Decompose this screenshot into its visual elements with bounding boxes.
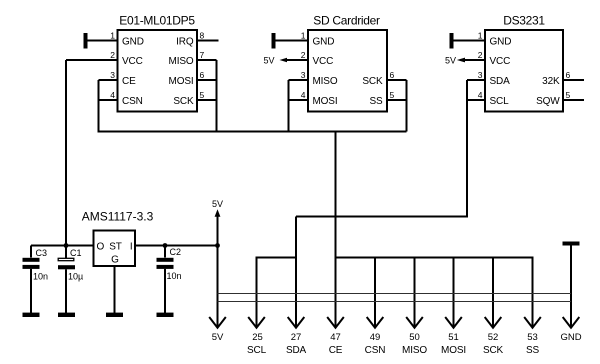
svg-text:SCK: SCK: [483, 345, 504, 356]
connector bus rail lower line: [218, 301, 572, 303]
arrow 27: [288, 317, 305, 328]
U1 pin 2 VCC wire: [66, 59, 118, 61]
svg-text:IRQ: IRQ: [176, 37, 194, 48]
svg-text:10n: 10n: [33, 272, 48, 282]
svg-text:VCC: VCC: [122, 56, 143, 67]
svg-text:7: 7: [200, 50, 205, 60]
svg-text:5V: 5V: [263, 56, 274, 66]
ground bar at U3 pin 1: [450, 33, 454, 49]
wire SDA drop: [295, 217, 297, 327]
wire 5V rail right: [135, 245, 218, 247]
svg-text:C2: C2: [170, 247, 182, 257]
IC U2 SD Cardrider body: [308, 30, 387, 112]
svg-text:2: 2: [110, 50, 115, 60]
capacitor C3: [23, 246, 40, 314]
svg-text:51: 51: [448, 332, 459, 343]
svg-text:SCK: SCK: [362, 76, 383, 87]
U1 pin 6 MOSI wire: [197, 79, 217, 81]
wire U3 SDA/SCL vertical: [466, 80, 468, 217]
svg-text:CE: CE: [329, 345, 343, 356]
wire MOSI drop: [453, 258, 455, 327]
U3 pin 3 SDA wire: [467, 79, 485, 81]
svg-text:SDA: SDA: [286, 345, 307, 356]
svg-text:32K: 32K: [542, 76, 560, 87]
IC U1 E01-ML01DP5 body: [118, 30, 198, 112]
arrow 51: [445, 317, 462, 328]
svg-text:SD Cardrider: SD Cardrider: [313, 14, 380, 28]
svg-text:MISO: MISO: [169, 56, 194, 67]
ground bar at U1 pin 1: [84, 33, 88, 49]
U1 pin 5 SCK wire: [197, 99, 217, 101]
svg-text:52: 52: [488, 332, 499, 343]
U1 pin 3 CE wire: [99, 79, 118, 81]
svg-text:4: 4: [301, 90, 306, 100]
svg-text:SCL: SCL: [490, 96, 510, 107]
arrow GND: [563, 317, 580, 328]
U1 pin 4 CSN wire: [99, 99, 118, 101]
svg-text:27: 27: [291, 332, 302, 343]
wire MISO drop: [414, 258, 416, 327]
svg-text:G: G: [111, 255, 119, 266]
junction dot C1: [64, 243, 69, 248]
arrow 52: [485, 317, 502, 328]
wire U2 SCK/SS vertical: [406, 80, 408, 132]
U2 pin 2 VCC wire with 5V arrow: [263, 56, 308, 66]
junction dot 5V: [215, 243, 220, 248]
svg-text:5V: 5V: [212, 199, 223, 209]
svg-text:ST: ST: [109, 242, 122, 253]
svg-text:MOSI: MOSI: [169, 76, 194, 87]
arrow 53: [524, 317, 541, 328]
wire CE drop: [335, 132, 337, 327]
ground bar at U2 pin 1: [272, 33, 276, 49]
svg-text:50: 50: [409, 332, 420, 343]
wire SS drop: [532, 257, 534, 327]
svg-text:5: 5: [390, 90, 395, 100]
svg-text:53: 53: [527, 332, 538, 343]
svg-text:MOSI: MOSI: [441, 345, 466, 356]
svg-text:3: 3: [301, 70, 306, 80]
wire U1 MISO/MOSI/SCK vertical: [216, 60, 218, 132]
U3 pin 6 32K wire: [563, 79, 584, 81]
wire SCL branch horizontal: [257, 257, 297, 259]
svg-text:5: 5: [566, 90, 571, 100]
wire 5V drop: [217, 246, 219, 327]
svg-text:47: 47: [330, 332, 341, 343]
wire 3.3V rail left: [31, 245, 94, 247]
svg-text:CSN: CSN: [122, 96, 143, 107]
svg-text:GND: GND: [122, 37, 144, 48]
arrow 50: [406, 317, 423, 328]
svg-text:SCL: SCL: [247, 345, 267, 356]
wire SCL drop: [256, 257, 258, 327]
VR1 ground pin wire: [114, 266, 116, 314]
svg-text:49: 49: [370, 332, 381, 343]
ground bar at GND drop: [563, 242, 580, 246]
arrow 47: [327, 317, 344, 328]
svg-text:1: 1: [110, 31, 115, 41]
svg-text:CSN: CSN: [365, 345, 386, 356]
U2 pin 6 SCK wire: [387, 79, 407, 81]
svg-text:4: 4: [478, 90, 483, 100]
svg-text:MISO: MISO: [402, 345, 427, 356]
U2 pin 1 GND wire: [276, 40, 309, 42]
ground bar under C2: [157, 313, 174, 317]
ground bar under C3: [23, 313, 40, 317]
svg-text:VCC: VCC: [313, 56, 334, 67]
svg-text:MISO: MISO: [313, 76, 338, 87]
svg-text:GND: GND: [560, 332, 581, 343]
svg-text:SCK: SCK: [173, 96, 194, 107]
svg-text:5: 5: [200, 90, 205, 100]
svg-text:C1: C1: [70, 248, 82, 258]
connector bus rail upper line: [218, 293, 572, 295]
IC U3 DS3231 body: [485, 30, 563, 112]
U3 pin 5 SQW wire: [563, 99, 584, 101]
wire SCK drop: [492, 258, 494, 327]
svg-text:10µ: 10µ: [68, 272, 83, 282]
ground bar under C1: [58, 313, 75, 317]
wire U2 MISO/MOSI vertical: [288, 80, 290, 132]
U2 pin 3 MISO wire: [289, 79, 309, 81]
svg-text:GND: GND: [313, 37, 335, 48]
arrow 5V: [209, 317, 226, 328]
svg-text:E01-ML01DP5: E01-ML01DP5: [119, 14, 195, 28]
junction dot C2: [163, 243, 168, 248]
wire GND drop: [570, 246, 572, 327]
svg-text:6: 6: [566, 70, 571, 80]
svg-text:8: 8: [200, 31, 205, 41]
U1 pin 8 IRQ wire: [197, 40, 219, 42]
ground bar under VR1: [106, 313, 123, 317]
wire horizontal SPI net: [98, 131, 407, 133]
wire bottom branch horizontal CE to SS: [336, 257, 533, 259]
svg-text:2: 2: [478, 50, 483, 60]
capacitor C2: [157, 246, 174, 314]
svg-text:SQW: SQW: [536, 96, 560, 107]
svg-text:1: 1: [301, 31, 306, 41]
U2 pin 5 SS wire: [387, 99, 407, 101]
arrow 49: [367, 317, 384, 328]
svg-text:SDA: SDA: [490, 76, 511, 87]
svg-text:5V: 5V: [212, 332, 224, 343]
U1 pin 1 GND wire: [87, 40, 118, 42]
U1 pin 7 MISO wire: [197, 59, 217, 61]
wire I2C horizontal: [296, 216, 468, 218]
capacitor C1 polarized: [58, 246, 75, 314]
svg-text:CE: CE: [122, 76, 136, 87]
svg-text:4: 4: [110, 90, 115, 100]
U2 pin 4 MOSI wire: [289, 99, 309, 101]
wire CSN drop: [374, 258, 376, 327]
U3 pin 4 SCL wire: [467, 99, 485, 101]
svg-text:3: 3: [110, 70, 115, 80]
svg-text:SS: SS: [369, 96, 383, 107]
svg-text:O: O: [97, 242, 105, 253]
svg-text:3: 3: [478, 70, 483, 80]
svg-text:5V: 5V: [445, 56, 456, 66]
5V supply flag: [212, 199, 223, 246]
regulator VR1 body: [94, 231, 136, 267]
svg-text:AMS1117-3.3: AMS1117-3.3: [82, 210, 154, 224]
U3 pin 1 GND wire: [454, 40, 486, 42]
arrow 25: [248, 317, 265, 328]
wire U1 VCC down to 3.3V rail: [65, 60, 67, 246]
svg-text:25: 25: [252, 332, 263, 343]
svg-text:2: 2: [301, 50, 306, 60]
U3 pin 2 VCC wire with 5V arrow: [445, 56, 485, 66]
svg-text:I: I: [130, 242, 133, 253]
svg-text:10n: 10n: [167, 271, 182, 281]
svg-text:GND: GND: [490, 37, 512, 48]
svg-text:SS: SS: [526, 345, 540, 356]
svg-text:1: 1: [478, 31, 483, 41]
svg-text:DS3231: DS3231: [503, 14, 545, 28]
wire U1 CE/CSN vertical: [98, 80, 100, 132]
svg-text:6: 6: [390, 70, 395, 80]
svg-text:MOSI: MOSI: [313, 96, 338, 107]
svg-text:VCC: VCC: [490, 56, 511, 67]
svg-text:6: 6: [200, 70, 205, 80]
svg-text:C3: C3: [36, 248, 48, 258]
